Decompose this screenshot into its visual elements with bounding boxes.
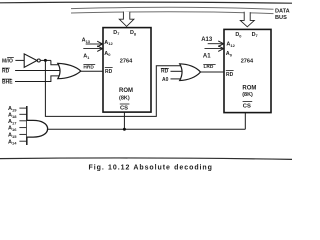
- svg-text:A13: A13: [82, 38, 91, 44]
- wire inverter output: [41, 59, 51, 61]
- svg-text:ROM: ROM: [119, 88, 133, 94]
- svg-text:ROM: ROM: [242, 86, 256, 92]
- svg-text:HRD: HRD: [83, 64, 94, 70]
- top rule line: [0, 2, 292, 3]
- labels A19..A14: [8, 106, 17, 146]
- svg-text:DATA: DATA: [275, 9, 290, 15]
- bus arrow into ROM U1 (hollow): [119, 12, 134, 27]
- label A0 (middle): [162, 77, 169, 83]
- wire CS net (gate G3 output to both CS pins): [48, 128, 246, 130]
- svg-text:M/IO: M/IO: [2, 58, 13, 64]
- svg-text:(8K): (8K): [242, 92, 253, 98]
- wire jog into gate G1 upper input: [51, 60, 60, 64]
- wire HRD output to ROM U1 RD: [81, 70, 103, 72]
- data bus line 2: [71, 12, 274, 14]
- svg-text:2764: 2764: [241, 59, 254, 65]
- svg-text:D8: D8: [130, 30, 137, 36]
- svg-text:A0: A0: [162, 77, 169, 83]
- wire arrow A1 into ROM U2: [205, 48, 223, 50]
- wire stubs A19..A14: [19, 107, 26, 109]
- label LRD with overline: [204, 64, 214, 70]
- svg-text:A14: A14: [8, 139, 17, 145]
- wire arrow A13 into ROM U2: [208, 43, 223, 45]
- svg-text:BUS: BUS: [275, 15, 287, 21]
- wire ROM U2 CS drop: [244, 113, 246, 130]
- label A1 (left): [83, 54, 90, 60]
- svg-text:LRD: LRD: [204, 64, 214, 70]
- wire LRD output to ROM U2 RD: [200, 71, 224, 73]
- wire M/IO to inverter: [15, 59, 24, 61]
- svg-text:A12: A12: [104, 40, 113, 46]
- svg-text:RD: RD: [161, 69, 169, 75]
- ROM U1 pin labels: [104, 30, 137, 112]
- label RD (middle) with overline: [161, 69, 169, 75]
- junction node CS: [123, 128, 126, 131]
- svg-text:D7: D7: [113, 30, 119, 36]
- wire arrow A1 into ROM U1: [83, 48, 101, 50]
- svg-text:CS: CS: [120, 105, 128, 111]
- svg-text:A1: A1: [203, 54, 211, 60]
- svg-text:RD: RD: [105, 69, 113, 75]
- svg-text:2764: 2764: [120, 59, 133, 65]
- svg-text:D7: D7: [252, 32, 258, 38]
- svg-text:A17: A17: [8, 119, 17, 125]
- svg-text:A0: A0: [226, 51, 233, 57]
- wire BHE jog into gate G1 lower input: [15, 76, 60, 82]
- label A13 (middle): [201, 37, 213, 43]
- wire RD stub into gate G2: [171, 70, 183, 72]
- bus arrow into ROM U2 (hollow): [240, 12, 254, 27]
- gate G1 (HRD OR gate): [58, 63, 81, 78]
- svg-text:A18: A18: [8, 112, 17, 118]
- svg-text:A12: A12: [226, 42, 235, 48]
- svg-text:RD: RD: [2, 69, 10, 75]
- svg-text:CS: CS: [243, 104, 251, 110]
- data bus line 1: [71, 7, 274, 9]
- gate G3 (AND gate A19-A14) input bar: [26, 106, 28, 145]
- ROM U2 CS pin overline: [243, 100, 253, 102]
- caption: [89, 164, 213, 171]
- svg-text:BHE: BHE: [2, 80, 13, 86]
- label RD with overline: [2, 69, 10, 75]
- label HRD with overline: [83, 64, 94, 70]
- ROM U1 RD pin overline: [105, 66, 113, 68]
- inverter U3: [24, 54, 37, 67]
- svg-text:RD: RD: [226, 72, 234, 78]
- ROM U2 RD pin overline: [226, 69, 234, 71]
- svg-text:A13: A13: [201, 37, 213, 43]
- label BHE with overline: [2, 80, 13, 86]
- svg-text:(8K): (8K): [119, 95, 130, 101]
- bottom rule line: [0, 158, 292, 159]
- wire RD to gate G1: [15, 70, 61, 72]
- ROM U2 2764 box: [224, 29, 271, 112]
- ROM U1 2764 box: [103, 28, 151, 113]
- wire ROM U1 CS drop: [123, 112, 125, 129]
- svg-text:A0: A0: [104, 51, 111, 57]
- svg-text:D0: D0: [235, 32, 241, 38]
- gate G2 (LRD OR gate): [180, 64, 201, 81]
- label A1 (middle): [203, 54, 211, 60]
- label DATA BUS: [275, 9, 290, 21]
- wire A0 stub into gate G2: [171, 78, 182, 80]
- label M/IO with overline: [2, 58, 13, 64]
- ROM U1 CS pin overline: [120, 103, 130, 105]
- svg-text:A1: A1: [83, 54, 90, 60]
- svg-text:A15: A15: [8, 133, 17, 139]
- svg-text:Fig. 10.12 Absolute decoding: Fig. 10.12 Absolute decoding: [89, 164, 213, 171]
- gate G3 body: [27, 120, 48, 137]
- svg-text:A16: A16: [8, 126, 17, 132]
- wire node riser (inverter junction down, along bottom, up to gate G2): [45, 60, 182, 116]
- junction node: [44, 59, 47, 62]
- label A13 (left): [82, 38, 91, 44]
- ROM U2 pin labels: [226, 32, 258, 110]
- wire arrow A13 into ROM U1: [86, 43, 102, 45]
